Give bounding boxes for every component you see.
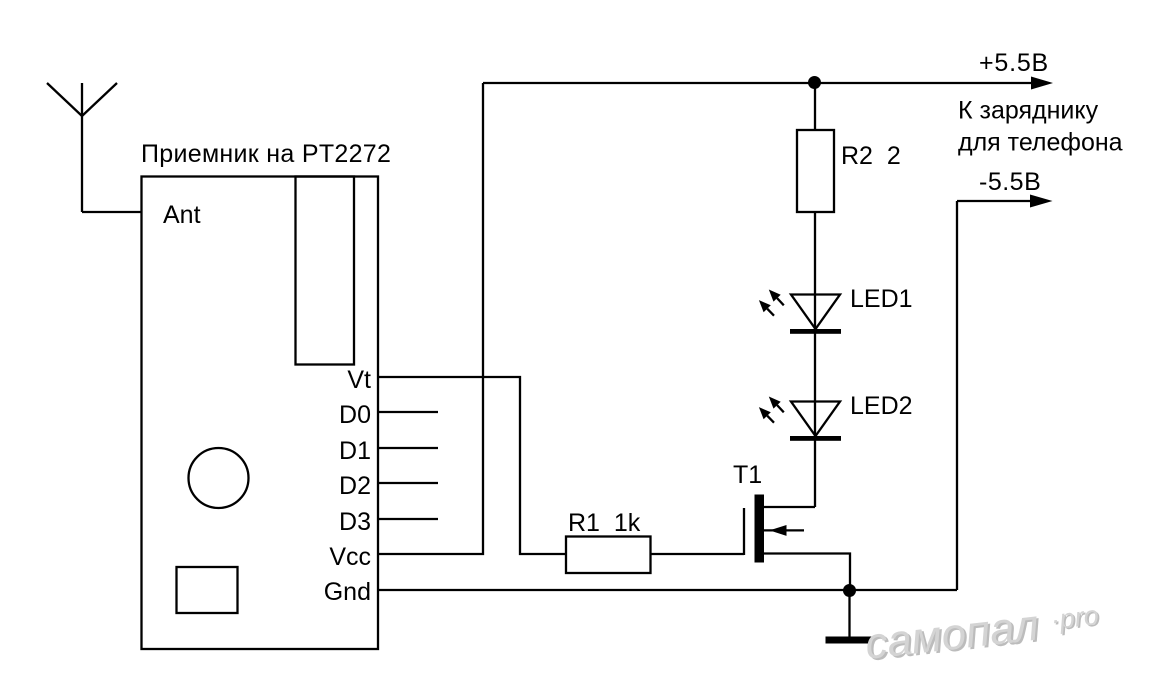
antenna W1 — [47, 83, 117, 212]
svg-text:D1: D1 — [339, 437, 371, 465]
LED1 diode triangle — [791, 295, 840, 330]
LED1 emission arrow a — [769, 290, 781, 302]
wire -5.5V vertical — [956, 201, 958, 590]
wire -5.5V horizontal — [957, 200, 1030, 202]
wire R2 to LED1 (continues through LED symbols to T1 drain) — [814, 212, 816, 507]
junction node on +5.5V rail — [808, 76, 821, 89]
svg-text:LED1: LED1 — [850, 285, 913, 313]
resistor R1 body — [566, 537, 651, 574]
LED1 cathode bar — [790, 329, 841, 334]
junction node at T1 source / ground — [843, 584, 856, 597]
LED1 emission arrow b — [759, 300, 771, 312]
wire Gnd pin to -5.5V drop — [378, 589, 957, 591]
svg-text:Ant: Ant — [163, 201, 201, 229]
LED2 emission arrow b — [759, 407, 771, 419]
transistor T1 channel bar — [755, 495, 765, 563]
svg-text:LED2: LED2 — [850, 392, 913, 420]
svg-text:R2 2: R2 2 — [841, 142, 901, 170]
transistor T1 body arrow line — [764, 529, 804, 531]
LED2 emission arrow a — [769, 397, 781, 409]
receiver box U1 (Приемник на PT2272) — [142, 177, 379, 650]
pin stub wire D2 — [378, 482, 438, 484]
transistor T1 body arrowhead — [770, 525, 787, 536]
wire R1 to T1 gate — [650, 553, 744, 555]
svg-text:К заряднику: К заряднику — [958, 97, 1099, 125]
svg-text:-5.5В: -5.5В — [979, 168, 1041, 196]
decorative small rectangle on receiver board — [177, 567, 238, 613]
svg-text:D3: D3 — [339, 508, 371, 536]
+5.5V top rail wire — [483, 82, 1032, 84]
svg-text:Gnd: Gnd — [324, 578, 371, 606]
wire Vt to R1 — [378, 377, 566, 554]
inner notch rectangle of receiver module — [296, 177, 355, 365]
svg-text:T1: T1 — [733, 461, 762, 489]
pin stub wire D3 — [378, 518, 438, 520]
decorative circle on receiver board — [189, 448, 249, 508]
svg-text:Приемник на PT2272: Приемник на PT2272 — [141, 140, 391, 168]
resistor R2 body — [797, 130, 834, 212]
wire ground branch — [848, 590, 850, 637]
svg-text:R1 1k: R1 1k — [568, 509, 641, 537]
+5.5V rail arrowhead — [1031, 77, 1053, 90]
svg-text:D0: D0 — [339, 401, 371, 429]
wire LED2 to T1 drain — [764, 506, 815, 508]
LED2 cathode bar — [790, 436, 841, 441]
transistor T1 gate line — [743, 508, 745, 555]
svg-text:+5.5В: +5.5В — [979, 49, 1049, 77]
wire rail to R2 — [814, 83, 816, 130]
ground symbol bar — [826, 637, 875, 644]
wire Vcc to +5.5V rail — [378, 83, 483, 554]
svg-text:Vcc: Vcc — [329, 543, 371, 571]
pin stub wire D1 — [378, 447, 438, 449]
LED2 diode triangle — [791, 402, 840, 437]
watermark самопал.pro — [863, 593, 1104, 670]
svg-text:·pro: ·pro — [1049, 600, 1100, 635]
-5.5V arrowhead — [1030, 195, 1053, 208]
svg-text:Vt: Vt — [347, 366, 371, 394]
transistor T1 source wire — [764, 554, 850, 591]
svg-text:для телефона: для телефона — [958, 129, 1123, 157]
wire antenna to Ant pin — [82, 211, 142, 213]
pin stub wire D0 — [378, 411, 438, 413]
svg-text:D2: D2 — [339, 472, 371, 500]
